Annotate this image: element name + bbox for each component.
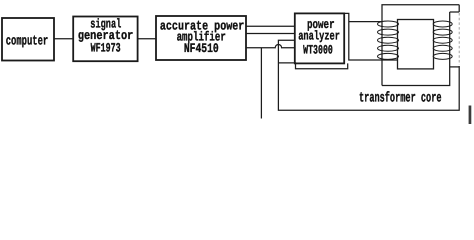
svg-text:NF4510: NF4510 [184,41,219,56]
svg-text:analyzer: analyzer [298,28,340,43]
svg-text:WT3000: WT3000 [303,42,333,57]
svg-text:WF1973: WF1973 [91,41,121,56]
svg-text:computer: computer [6,35,49,50]
svg-text:transformer core: transformer core [359,90,442,106]
